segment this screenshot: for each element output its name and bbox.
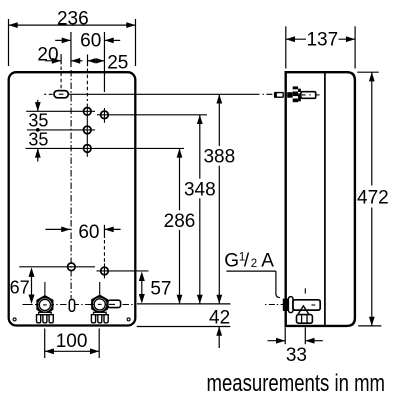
svg-text:measurements in mm: measurements in mm — [207, 370, 386, 397]
svg-text:/: / — [244, 251, 250, 272]
svg-text:25: 25 — [107, 53, 128, 74]
svg-text:20: 20 — [37, 44, 58, 65]
svg-text:57: 57 — [150, 279, 171, 300]
svg-text:388: 388 — [203, 147, 235, 168]
svg-text:2: 2 — [251, 258, 257, 270]
svg-text:33: 33 — [286, 345, 307, 366]
svg-text:60: 60 — [80, 30, 101, 51]
svg-text:35: 35 — [28, 129, 48, 149]
svg-text:236: 236 — [57, 8, 89, 29]
svg-text:472: 472 — [357, 187, 389, 208]
svg-text:60: 60 — [78, 222, 99, 243]
svg-text:286: 286 — [164, 211, 196, 232]
svg-text:137: 137 — [306, 30, 338, 51]
svg-text:G: G — [224, 251, 239, 272]
svg-text:100: 100 — [56, 331, 88, 352]
svg-text:42: 42 — [209, 307, 230, 328]
svg-text:348: 348 — [184, 179, 216, 200]
svg-text:67: 67 — [10, 277, 30, 297]
svg-text:A: A — [261, 251, 274, 272]
svg-text:35: 35 — [28, 111, 48, 131]
